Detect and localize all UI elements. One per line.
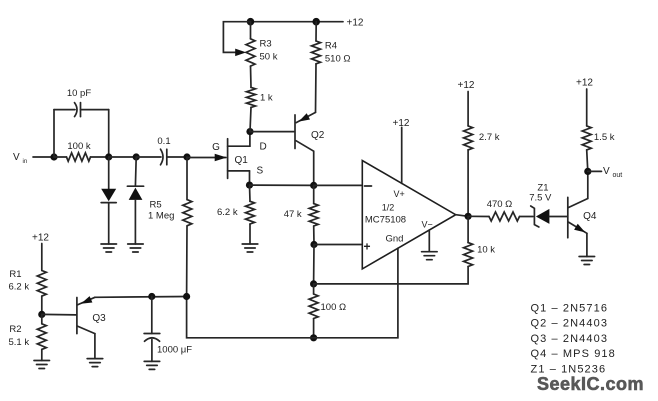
node 100ohm top: [310, 280, 317, 287]
svg-text:out: out: [613, 172, 623, 179]
zener Z1 7.5 V: [529, 183, 567, 228]
svg-text:6.2 k: 6.2 k: [217, 207, 238, 218]
svg-text:V: V: [603, 166, 610, 177]
resistor R1 6.2 k: [9, 269, 47, 314]
parts list line Q1: [531, 303, 609, 315]
svg-text:+: +: [364, 240, 371, 254]
resistor 1 k: [247, 66, 273, 132]
node rail R3: [247, 18, 255, 26]
svg-text:1 k: 1 k: [260, 93, 273, 104]
svg-text:1 Meg: 1 Meg: [148, 211, 174, 222]
transistor Q4 NPN: [568, 171, 597, 256]
svg-text:100 k: 100 k: [67, 141, 90, 152]
wire V- pin: [428, 230, 430, 252]
svg-text:2.7 k: 2.7 k: [479, 132, 500, 143]
wire feedback to 10k: [314, 267, 469, 284]
svg-text:D: D: [260, 142, 267, 153]
node D: [183, 153, 190, 160]
resistor R5 1 Meg: [148, 157, 192, 297]
svg-text:1.5 k: 1.5 k: [594, 132, 615, 143]
svg-text:S: S: [257, 166, 264, 177]
svg-text:+12: +12: [458, 80, 475, 91]
resistor 10 k: [464, 216, 496, 266]
parts list line Q4: [531, 348, 616, 360]
svg-text:10 k: 10 k: [477, 245, 495, 256]
resistor 100 k: [54, 141, 109, 161]
parts list line Z1: [531, 363, 607, 375]
node output: [465, 213, 472, 220]
wire output: [456, 215, 468, 217]
node rail R4: [312, 18, 320, 26]
node C: [133, 153, 140, 160]
wire node B to node C: [109, 156, 137, 158]
svg-text:100 Ω: 100 Ω: [321, 302, 347, 313]
svg-text:Q3 – 2N4403: Q3 – 2N4403: [531, 333, 609, 345]
emitter arrow Q2: [299, 113, 310, 121]
svg-text:+12: +12: [32, 233, 49, 244]
svg-text:+12: +12: [347, 18, 364, 29]
resistor 1.5 k: [582, 89, 615, 171]
power +12 2.7k: [458, 80, 475, 91]
wire top rail: [251, 21, 344, 23]
gate arrow: [215, 154, 227, 161]
wire gate lead: [187, 157, 226, 159]
svg-text:47 k: 47 k: [284, 209, 302, 220]
svg-text:Q3: Q3: [92, 313, 106, 324]
svg-text:SeekIC.com: SeekIC.com: [537, 374, 644, 394]
resistor 47 k: [284, 185, 319, 244]
transistor Q1 JFET: [212, 132, 267, 186]
svg-text:Q1: Q1: [235, 155, 249, 166]
node 1000uF: [148, 293, 155, 300]
transistor Q3 PNP: [77, 297, 106, 358]
wiper link R3: [223, 22, 250, 53]
diode D1 clamp down: [101, 157, 116, 244]
svg-text:R4: R4: [325, 41, 337, 52]
wiper arrow: [235, 49, 246, 57]
node input A: [50, 153, 57, 160]
power +12 left: [32, 233, 49, 244]
node 100ohm bottom: [310, 334, 317, 341]
emitter arrow Q3: [81, 296, 93, 304]
svg-text:Q2 – 2N4403: Q2 – 2N4403: [531, 318, 609, 330]
svg-text:470 Ω: 470 Ω: [487, 199, 513, 210]
svg-text:R2: R2: [9, 324, 21, 335]
ground V- pin: [422, 252, 438, 260]
svg-text:Q1 – 2N5716: Q1 – 2N5716: [531, 303, 609, 315]
ground below Q4: [579, 257, 595, 265]
potentiometer R3 50 k: [246, 22, 278, 66]
power +12 top: [347, 18, 364, 29]
ground below D2: [128, 244, 144, 252]
resistor 2.7 k: [464, 92, 500, 217]
svg-text:in: in: [23, 159, 28, 165]
diode D2 clamp up: [127, 157, 143, 244]
wire Q3 base: [42, 313, 76, 316]
wire +12 to R1: [41, 244, 43, 271]
node source S: [246, 182, 253, 189]
emitter arrow Q4: [574, 224, 585, 233]
input label Vin: [13, 152, 27, 165]
wire minus input: [314, 184, 362, 186]
resistor 6.2 k source: [217, 185, 255, 244]
node B: [105, 153, 112, 160]
wire bottom gnd bus: [187, 248, 398, 338]
node R5 bottom: [183, 293, 190, 300]
svg-text:V: V: [13, 152, 20, 163]
ground below D1: [101, 244, 117, 252]
wire Q3 emitter bus: [95, 296, 187, 299]
svg-text:R3: R3: [260, 39, 272, 50]
svg-text:Q4 – MPS 918: Q4 – MPS 918: [531, 348, 616, 360]
ground below R2: [34, 361, 50, 369]
svg-text:10 pF: 10 pF: [67, 88, 91, 99]
wire Vout lead: [588, 170, 602, 172]
resistor R2 5.1 k: [9, 314, 47, 360]
resistor 100 ohm: [309, 284, 346, 338]
capacitor 1000 uF: [144, 297, 192, 362]
output label Vout: [603, 166, 622, 179]
svg-text:V+: V+: [394, 189, 405, 199]
svg-text:7.5 V: 7.5 V: [529, 193, 552, 204]
svg-text:G: G: [212, 142, 220, 153]
wire plus input: [314, 244, 361, 246]
watermark SeekIC.com: [537, 374, 644, 394]
svg-text:0.1: 0.1: [157, 136, 170, 147]
svg-text:50 k: 50 k: [260, 52, 278, 63]
wire 47k to 100ohm: [313, 245, 315, 284]
parts list line Q3: [531, 333, 609, 345]
capacitor 0.1: [136, 136, 187, 165]
svg-text:510 Ω: 510 Ω: [325, 54, 351, 65]
node plus in: [310, 241, 317, 248]
resistor R4 510 ohm: [312, 22, 351, 113]
resistor 470 ohm: [468, 199, 533, 221]
svg-text:1000 μF: 1000 μF: [157, 345, 192, 356]
node minus in: [310, 182, 317, 189]
svg-text:Q2: Q2: [311, 130, 325, 141]
capacitor 10 pF: [54, 88, 109, 157]
svg-text:V−: V−: [422, 220, 433, 230]
ground below 1000uF: [144, 361, 160, 369]
power +12 opamp: [393, 118, 410, 129]
wire V+ pin: [401, 127, 403, 183]
wire Q2 base: [250, 131, 294, 133]
node drain: [246, 128, 253, 135]
svg-text:1/2: 1/2: [382, 203, 395, 213]
power +12 1.5k: [576, 78, 593, 89]
svg-text:6.2 k: 6.2 k: [9, 282, 30, 293]
ground below 6.2 k: [242, 244, 258, 252]
svg-text:Q4: Q4: [583, 211, 597, 222]
node R1 R2: [38, 311, 45, 318]
wire Vin lead: [33, 156, 54, 158]
parts list line Q2: [531, 318, 609, 330]
ground below Q3: [87, 359, 103, 367]
svg-text:5.1 k: 5.1 k: [9, 337, 30, 348]
svg-text:R5: R5: [150, 200, 162, 211]
node Vout: [584, 168, 591, 175]
op-amp U1 1/2 MC75108: [362, 161, 455, 269]
svg-text:+12: +12: [576, 78, 593, 89]
svg-text:R1: R1: [9, 269, 21, 280]
transistor Q2 PNP: [295, 112, 325, 185]
wire S to 47k node: [250, 184, 314, 186]
svg-text:MC75108: MC75108: [365, 215, 406, 226]
svg-text:Gnd: Gnd: [386, 234, 404, 245]
